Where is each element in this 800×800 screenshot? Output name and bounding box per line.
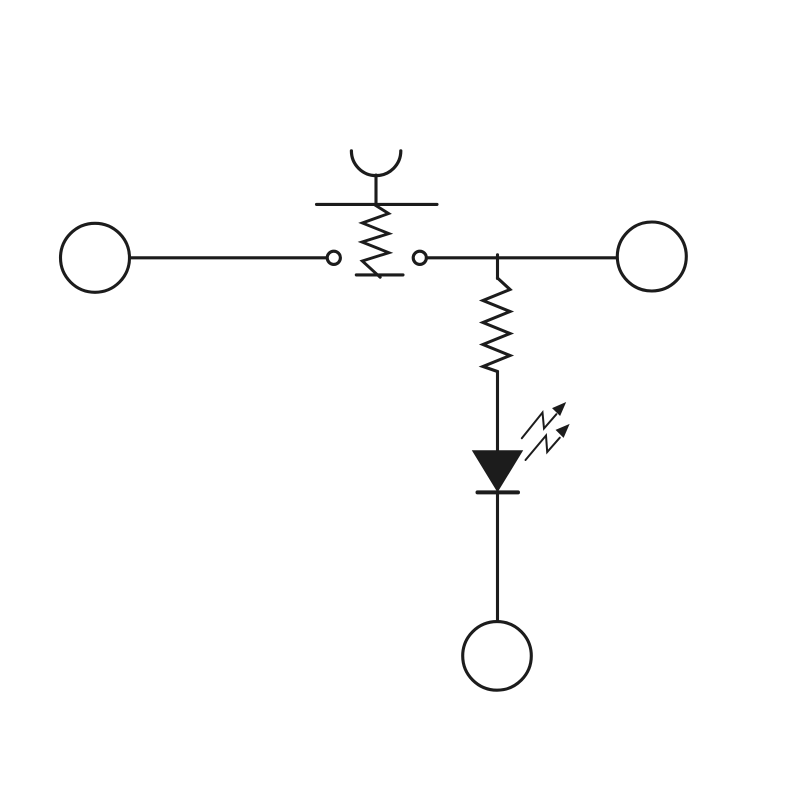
switch S1 actuator cup bbox=[351, 151, 400, 176]
switch S1 return spring bbox=[362, 205, 389, 277]
wire from T1 to switch left contact bbox=[130, 256, 327, 259]
terminal circle T2 (right) bbox=[617, 222, 686, 291]
terminal circle T3 (bottom) bbox=[463, 622, 532, 691]
LED light arrow 1 bbox=[522, 403, 565, 438]
switch S1 left contact bbox=[327, 251, 340, 264]
switch S1 right contact bbox=[413, 251, 426, 264]
wire from resistor to LED anode bbox=[496, 372, 499, 454]
wire from LED cathode to T3 bbox=[496, 494, 499, 621]
LED D1 triangle bbox=[474, 452, 521, 491]
wire from switch right contact to T2 bbox=[426, 256, 617, 259]
junction node and wire down to resistor bbox=[496, 255, 499, 279]
switch S1 actuator stem bbox=[374, 175, 377, 204]
LED D1 cathode bar bbox=[478, 490, 519, 494]
switch S1 actuator bar bbox=[317, 203, 438, 206]
resistor R1 bbox=[483, 278, 510, 372]
switch S1 spring stop line bbox=[356, 273, 403, 276]
terminal circle T1 (left) bbox=[61, 223, 130, 292]
LED light arrow 2 bbox=[526, 425, 569, 460]
